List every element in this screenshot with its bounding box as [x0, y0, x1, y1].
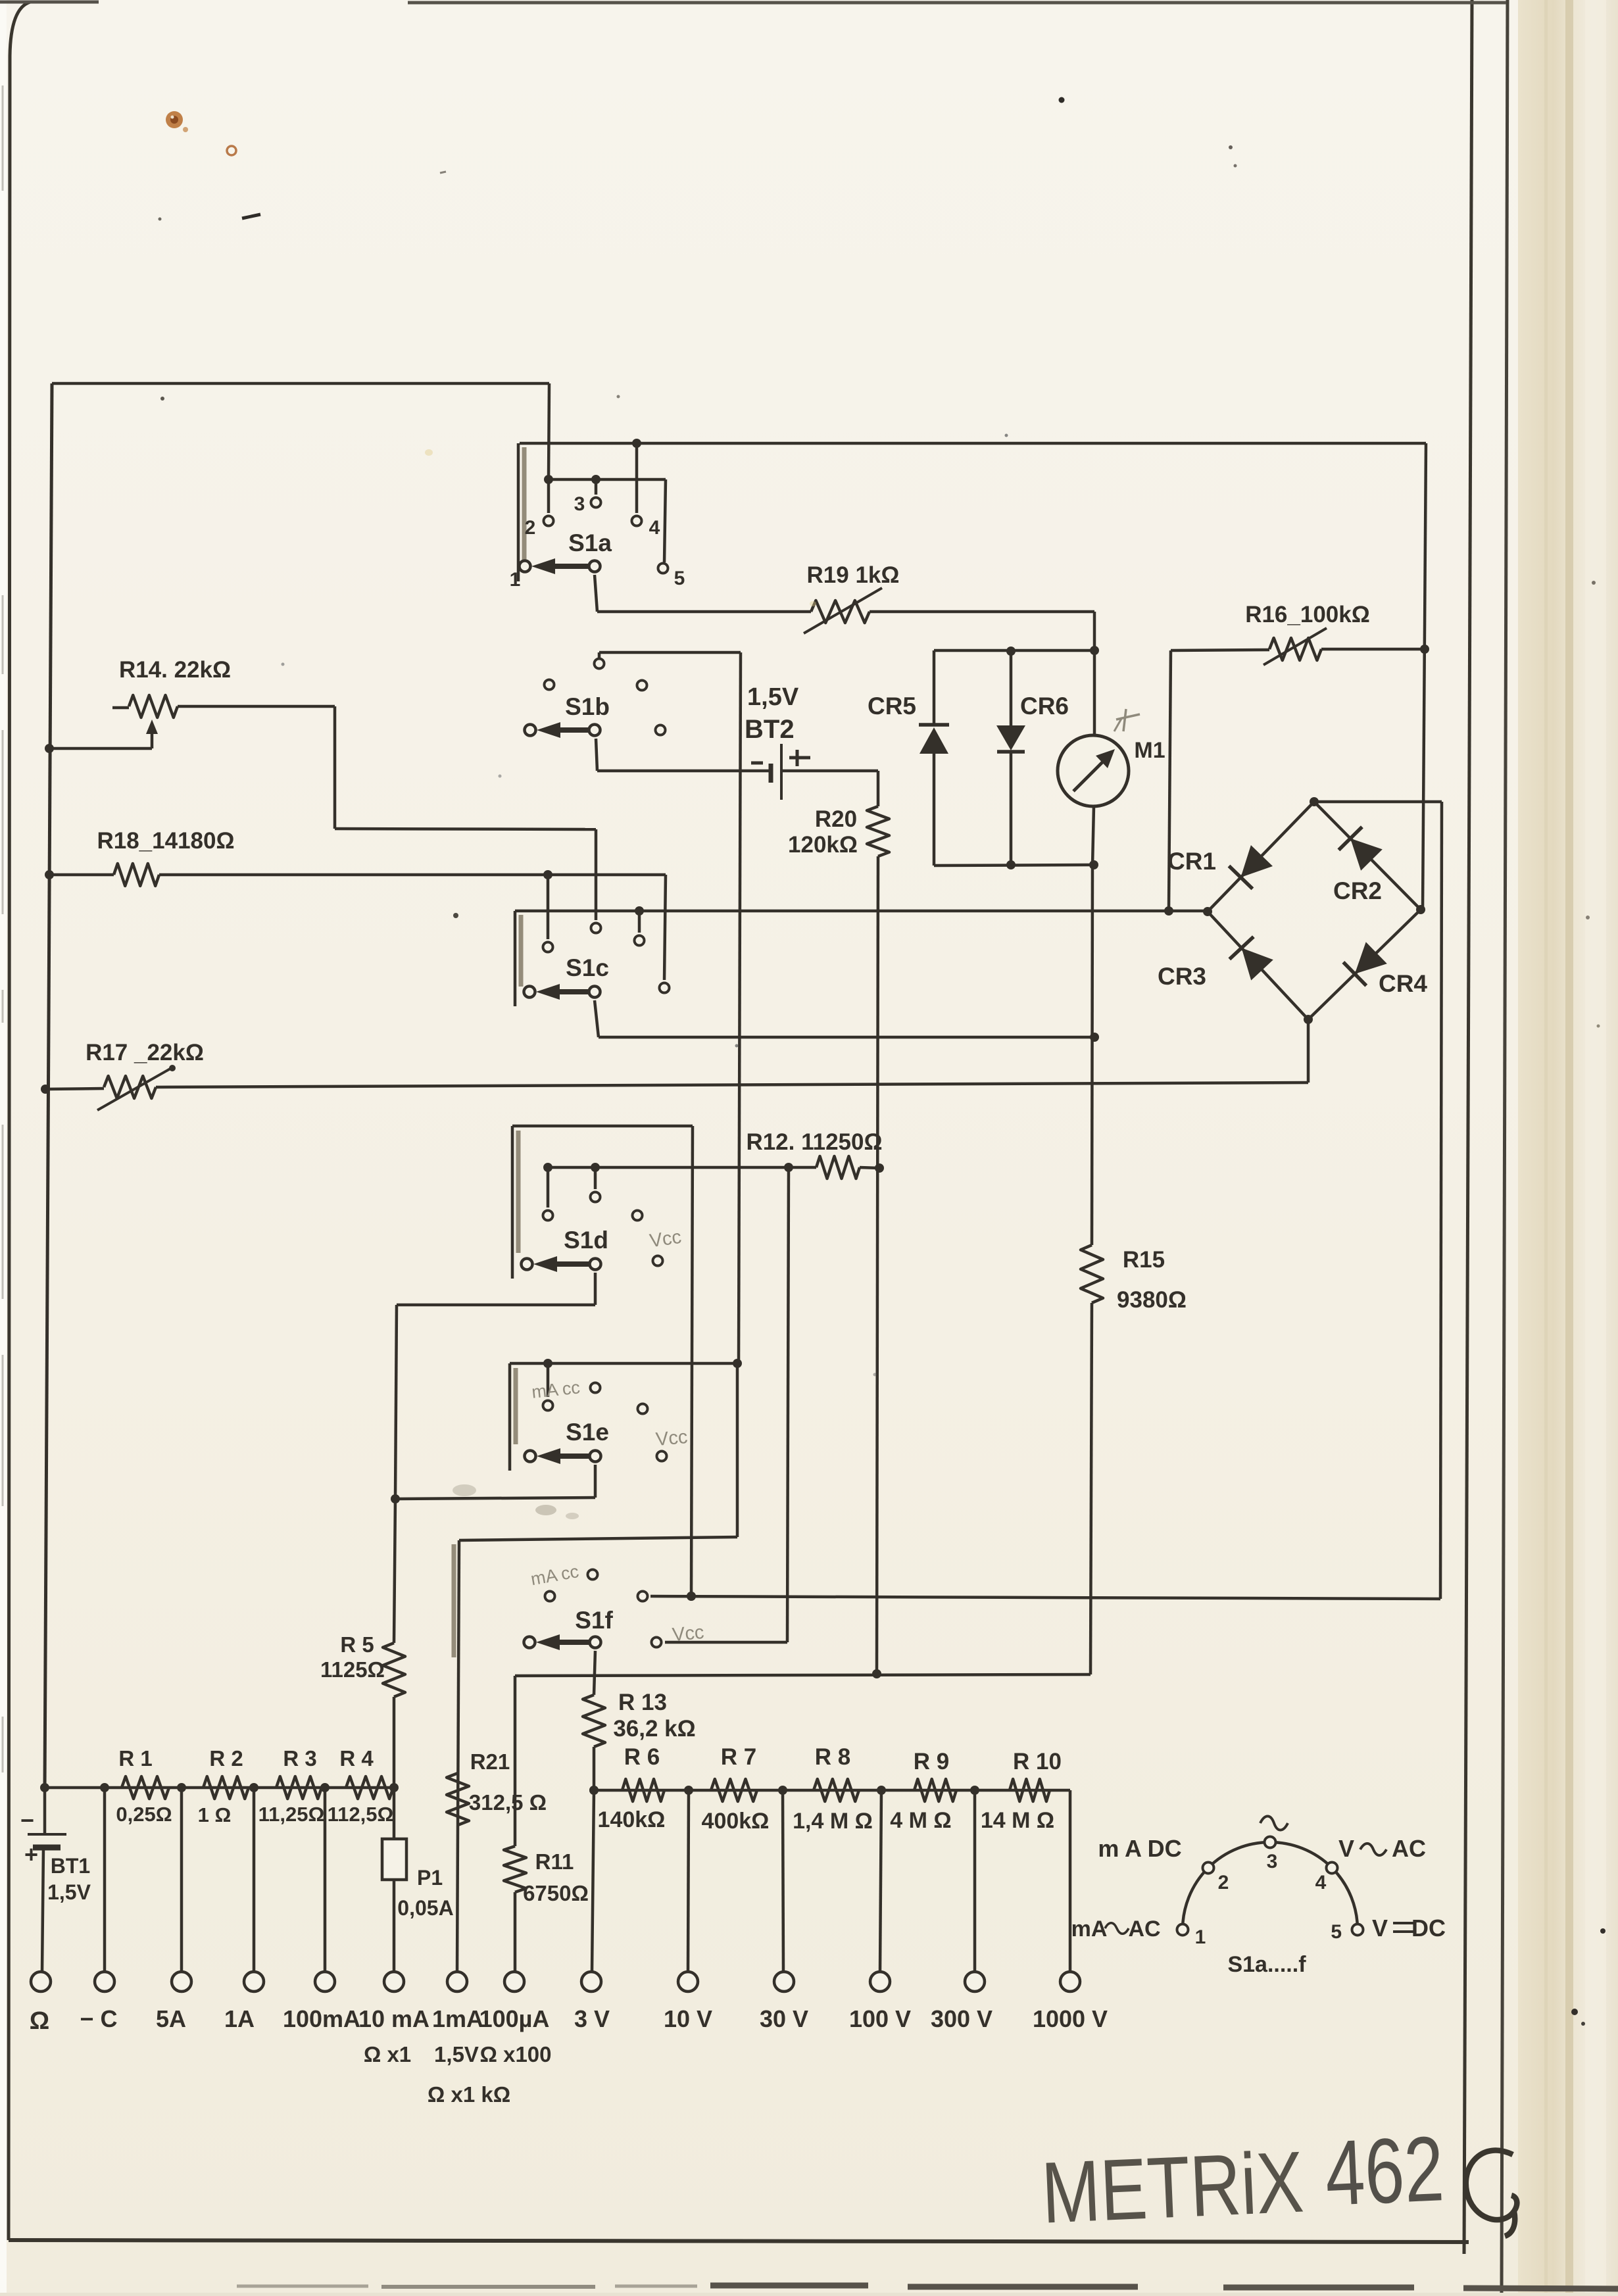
svg-text:R 5: R 5 [340, 1632, 374, 1657]
svg-text:1,5V: 1,5V [747, 683, 799, 711]
svg-text:BT1: BT1 [51, 1854, 90, 1878]
svg-text:R18_14180Ω: R18_14180Ω [97, 828, 234, 854]
svg-text:CR2: CR2 [1333, 877, 1382, 904]
svg-text:R11: R11 [535, 1849, 574, 1874]
svg-text:2: 2 [1218, 1872, 1229, 1893]
svg-text:1,5V: 1,5V [47, 1880, 91, 1904]
svg-text:S1a: S1a [568, 529, 612, 556]
svg-text:3 V: 3 V [574, 2005, 610, 2032]
svg-text:R21: R21 [470, 1749, 510, 1774]
svg-text:S1a.....f: S1a.....f [1227, 1952, 1306, 1977]
svg-text:R15: R15 [1123, 1247, 1165, 1273]
svg-text:CR6: CR6 [1020, 693, 1069, 720]
svg-text:11,25Ω: 11,25Ω [258, 1803, 325, 1826]
svg-text:METRiX: METRiX [1040, 2134, 1306, 2241]
svg-text:Vcc: Vcc [672, 1622, 705, 1646]
svg-text:P1: P1 [417, 1866, 443, 1890]
svg-text:0,25Ω: 0,25Ω [116, 1803, 172, 1826]
svg-text:10 V: 10 V [664, 2005, 712, 2032]
svg-text:1: 1 [510, 569, 521, 591]
svg-text:120kΩ: 120kΩ [788, 832, 858, 858]
svg-text:V: V [1372, 1915, 1388, 1942]
svg-text:9380Ω: 9380Ω [1117, 1287, 1187, 1313]
svg-text:AC: AC [1128, 1917, 1160, 1942]
svg-text:R12. 11250Ω: R12. 11250Ω [746, 1129, 882, 1155]
svg-text:R 9: R 9 [914, 1749, 949, 1774]
svg-text:Ω: Ω [30, 2007, 49, 2035]
svg-text:1 Ω: 1 Ω [198, 1803, 232, 1826]
svg-text:+: + [24, 1841, 38, 1868]
svg-text:R 7: R 7 [721, 1744, 756, 1770]
svg-text:1,5V: 1,5V [434, 2042, 479, 2066]
svg-text:R 6: R 6 [624, 1744, 660, 1770]
svg-text:R20: R20 [815, 806, 857, 832]
svg-text:1mA: 1mA [432, 2005, 483, 2032]
svg-text:CR4: CR4 [1379, 970, 1427, 997]
svg-text:R 13: R 13 [618, 1690, 667, 1715]
svg-text:5: 5 [1331, 1921, 1342, 1943]
svg-text:R 8: R 8 [815, 1744, 850, 1770]
svg-text:CR5: CR5 [868, 693, 916, 720]
svg-text:mA: mA [1071, 1917, 1108, 1942]
svg-text:0,05A: 0,05A [397, 1896, 453, 1920]
svg-text:3: 3 [1267, 1851, 1278, 1872]
svg-text:1A: 1A [224, 2005, 255, 2032]
svg-text:CR3: CR3 [1158, 963, 1206, 990]
svg-text:R19 1kΩ: R19 1kΩ [807, 562, 900, 588]
svg-text:R14. 22kΩ: R14. 22kΩ [119, 657, 231, 683]
svg-text:1000 V: 1000 V [1033, 2005, 1108, 2032]
svg-text:− C: − C [80, 2005, 117, 2032]
svg-text:S1b: S1b [565, 693, 610, 720]
svg-text:DC: DC [1411, 1915, 1446, 1942]
svg-text:2: 2 [525, 517, 536, 539]
svg-text:6750Ω: 6750Ω [523, 1881, 589, 1905]
svg-text:Vcc: Vcc [655, 1427, 689, 1450]
svg-text:5A: 5A [156, 2005, 186, 2032]
svg-text:3: 3 [574, 493, 585, 515]
svg-text:CR1: CR1 [1167, 848, 1216, 875]
svg-text:462: 462 [1323, 2116, 1446, 2225]
svg-text:312,5 Ω: 312,5 Ω [469, 1790, 547, 1815]
svg-text:100µA: 100µA [479, 2005, 550, 2032]
svg-text:100mA: 100mA [283, 2005, 360, 2032]
svg-text:4: 4 [649, 517, 660, 539]
svg-text:V: V [1338, 1835, 1354, 1862]
svg-text:R16_100kΩ: R16_100kΩ [1245, 602, 1370, 627]
svg-text:AC: AC [1392, 1835, 1426, 1862]
svg-text:M1: M1 [1134, 738, 1165, 763]
svg-text:300 V: 300 V [931, 2005, 993, 2032]
svg-text:112,5Ω: 112,5Ω [328, 1803, 394, 1826]
svg-text:−: − [20, 1807, 34, 1834]
svg-text:Vcc: Vcc [649, 1227, 683, 1252]
svg-text:10 mA: 10 mA [358, 2005, 429, 2032]
svg-text:1,4 M Ω: 1,4 M Ω [793, 1809, 873, 1834]
svg-text:5: 5 [674, 568, 685, 589]
svg-text:36,2 kΩ: 36,2 kΩ [613, 1716, 695, 1742]
svg-text:BT2: BT2 [745, 715, 795, 744]
svg-text:1: 1 [1195, 1926, 1206, 1948]
svg-text:R17 _22kΩ: R17 _22kΩ [86, 1040, 204, 1065]
svg-text:140kΩ: 140kΩ [598, 1807, 666, 1832]
svg-text:S1e: S1e [566, 1419, 609, 1446]
svg-text:R 1: R 1 [118, 1746, 152, 1771]
svg-text:R 4: R 4 [339, 1746, 374, 1771]
svg-text:Ω x1 kΩ: Ω x1 kΩ [428, 2082, 510, 2107]
svg-text:30 V: 30 V [760, 2005, 808, 2032]
svg-text:4: 4 [1315, 1872, 1327, 1893]
svg-text:R 2: R 2 [209, 1746, 243, 1771]
svg-text:400kΩ: 400kΩ [702, 1809, 770, 1834]
svg-text:m A DC: m A DC [1098, 1835, 1181, 1862]
svg-text:4 M Ω: 4 M Ω [890, 1808, 951, 1833]
svg-text:S1f: S1f [575, 1607, 613, 1634]
svg-text:S1c: S1c [566, 954, 609, 981]
svg-text:S1d: S1d [564, 1227, 608, 1254]
svg-text:100 V: 100 V [849, 2005, 911, 2032]
svg-text:R 10: R 10 [1013, 1749, 1062, 1774]
svg-text:Ω x1: Ω x1 [364, 2042, 411, 2066]
svg-text:Ω x100: Ω x100 [479, 2042, 551, 2066]
svg-text:1125Ω: 1125Ω [320, 1657, 385, 1682]
svg-text:R 3: R 3 [283, 1746, 316, 1771]
svg-text:14 M Ω: 14 M Ω [981, 1808, 1054, 1833]
